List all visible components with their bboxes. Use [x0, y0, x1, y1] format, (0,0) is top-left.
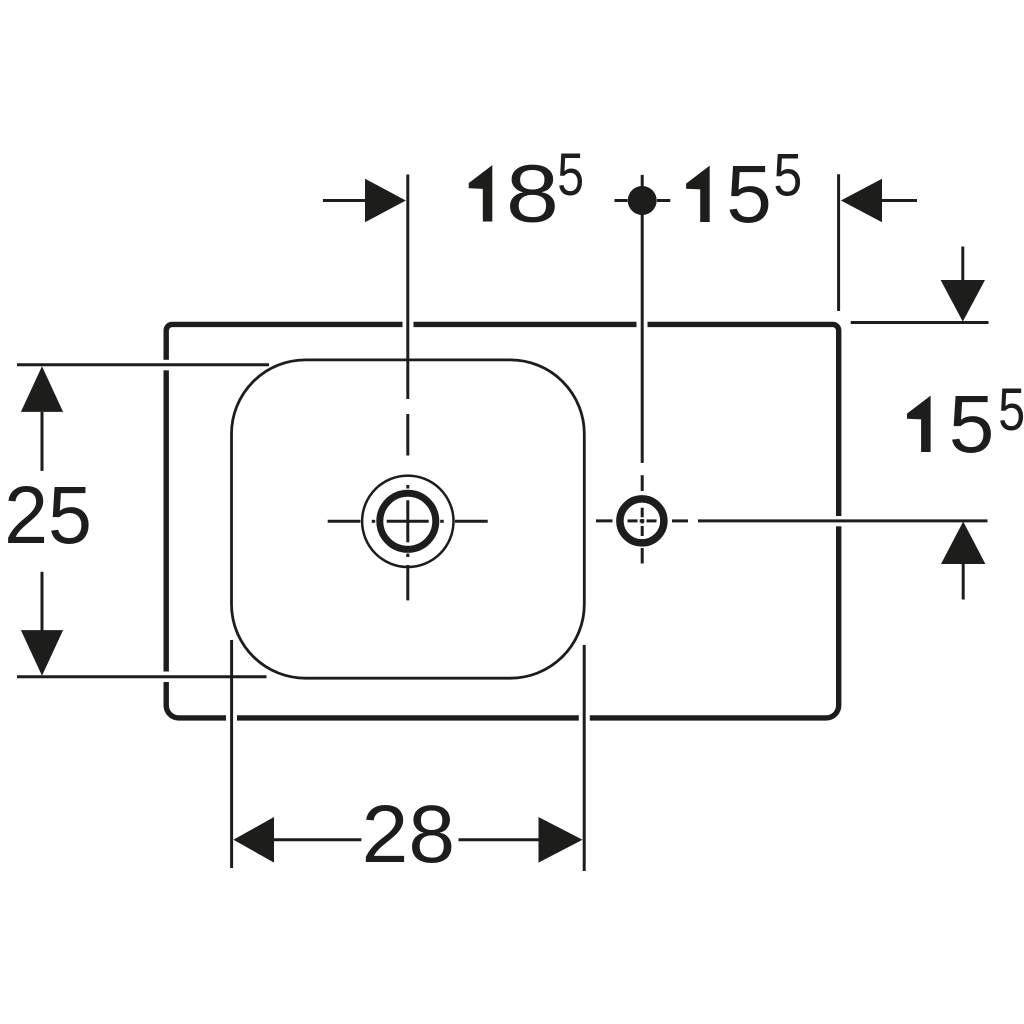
- washbasin outer rim: [160, 318, 845, 725]
- svg-text:5: 5: [998, 375, 1024, 443]
- bottom dimension: right arrow (points right): [539, 817, 583, 863]
- right dimension: down arrow: [941, 280, 985, 322]
- top dimension: right arrow (points left): [841, 179, 882, 223]
- drain hole outer circle: [362, 476, 453, 567]
- left dimension 25: top extension line: [17, 363, 269, 366]
- extension line above tap dot: [641, 175, 644, 187]
- drain centerline vertical (from top dimension): [406, 175, 409, 601]
- svg-text:25: 25: [4, 470, 92, 561]
- drain centerline horizontal: [328, 520, 488, 523]
- bottom dimension 28: left extension line: [230, 640, 233, 868]
- svg-text:5: 5: [773, 141, 802, 209]
- left dimension: upper stem: [41, 412, 44, 471]
- top edge right extension: [851, 321, 989, 324]
- left dimension: up arrow: [21, 366, 63, 412]
- tap hole centerline vertical: [641, 215, 644, 564]
- bottom dimension 28: right extension line: [583, 645, 586, 871]
- top dimension: right tail: [882, 199, 917, 202]
- tap hole ring: [620, 499, 664, 543]
- left dimension: lower stem: [41, 572, 44, 635]
- bottom dimension: line left segment: [272, 838, 361, 841]
- top dimension: left arrow (points right): [365, 179, 406, 223]
- drain hole inner ring: [380, 493, 436, 549]
- left dimension: down arrow: [21, 630, 63, 676]
- svg-text:5: 5: [949, 379, 995, 470]
- label 18: [469, 165, 493, 221]
- svg-text:5: 5: [557, 140, 584, 208]
- bottom dimension: left arrow (points left): [233, 817, 274, 863]
- top dimension: chain dot: [628, 186, 657, 215]
- right dimension: up arrow: [941, 522, 985, 565]
- bottom dimension: line right segment: [459, 838, 541, 841]
- right dimension 15.5: upper stem: [961, 247, 964, 281]
- svg-text:8: 8: [506, 149, 559, 240]
- left dimension 25: bottom extension line: [17, 675, 267, 678]
- svg-text:5: 5: [726, 149, 772, 240]
- tap centerline extension to right edge: [698, 519, 988, 522]
- label 15 (top): [686, 166, 710, 222]
- basin: [232, 360, 585, 678]
- label 15 (right): [907, 396, 931, 452]
- svg-text:28: 28: [362, 789, 455, 880]
- top dimension: left tail: [323, 199, 367, 202]
- tap hole centerline horizontal: [596, 519, 688, 522]
- right dimension: lower stem: [962, 564, 965, 600]
- top dimension: dot stubs: [615, 199, 628, 202]
- extension line right edge (top): [837, 174, 840, 311]
